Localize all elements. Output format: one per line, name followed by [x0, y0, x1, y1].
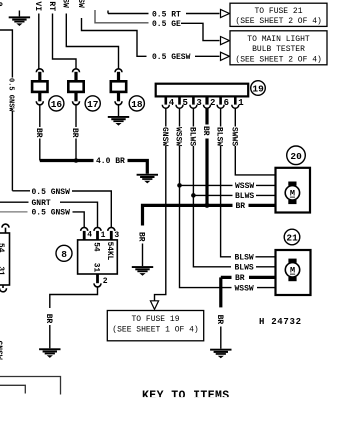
svg-text:20: 20 [290, 151, 302, 162]
svg-text:BR: BR [70, 128, 79, 138]
wire 0.5 RT feed [108, 11, 149, 14]
wire BR to motor 20 [207, 204, 276, 207]
wire SWWS pin 1 [235, 108, 275, 175]
svg-text:0.5 GESW: 0.5 GESW [152, 53, 191, 62]
label 0.5 GNSW row3 [0, 211, 28, 213]
label 0.5 GNSW row1 [12, 190, 30, 192]
svg-text:TO FUSE 21: TO FUSE 21 [255, 7, 303, 16]
svg-text:WSSW: WSSW [235, 182, 254, 191]
cut pin arc top [2, 224, 9, 233]
wire BLWS to motor 20 [193, 194, 275, 196]
arrow into fuse 21 box [221, 9, 230, 17]
svg-text:18: 18 [131, 99, 143, 110]
svg-text:3: 3 [114, 231, 119, 240]
svg-text:1: 1 [238, 98, 244, 108]
box TO FUSE 21 [230, 3, 327, 26]
arrow into bulb tester box (lower) [221, 52, 230, 60]
svg-text:BR: BR [201, 126, 210, 136]
wire to ground [142, 244, 144, 267]
svg-text:GNSW: GNSW [160, 127, 169, 146]
svg-text:TO FUSE 19: TO FUSE 19 [132, 315, 180, 324]
circle 20 [287, 146, 306, 165]
connector box 19 [156, 84, 249, 97]
svg-text:BR: BR [215, 315, 224, 325]
svg-text:H 24732: H 24732 [259, 317, 302, 327]
svg-text:0.5 GNSW: 0.5 GNSW [32, 188, 71, 197]
svg-text:(SEE SHEET 1 OF 4): (SEE SHEET 1 OF 4) [112, 326, 198, 335]
svg-text:BULB TESTER: BULB TESTER [252, 45, 305, 54]
svg-text:21: 21 [286, 233, 298, 244]
svg-text:8: 8 [61, 249, 67, 260]
svg-text:BR: BR [236, 202, 246, 211]
ground mid-left [132, 266, 153, 276]
wire 0.5 GE to arrow [181, 23, 220, 40]
wire RT jog to lamp 17 [53, 14, 77, 69]
wire WSSW to motor 20 [180, 184, 276, 186]
circle 8 [56, 245, 72, 261]
svg-text:17: 17 [87, 99, 99, 110]
svg-text:54: 54 [0, 243, 4, 253]
svg-text:(SEE SHEET 2 OF 4): (SEE SHEET 2 OF 4) [235, 55, 321, 64]
pin 1 of relay 8 [94, 227, 101, 240]
wire BLWS pin 3 [193, 108, 231, 266]
svg-text:4: 4 [87, 231, 92, 240]
svg-text:6: 6 [224, 98, 229, 108]
box TO FUSE 19 [107, 311, 203, 341]
svg-text:WSSW: WSSW [174, 127, 183, 146]
wire BR pin 2 thick [205, 108, 208, 205]
motor M symbol 20 [288, 182, 296, 186]
svg-text:1: 1 [101, 231, 106, 240]
wire row1 to pin 3 [72, 191, 111, 227]
box TO MAIN LIGHT BULB TESTER [230, 31, 327, 65]
wire row2 to pin 1 [60, 202, 98, 227]
wire 0.5 GE feed [95, 10, 149, 23]
frame line inner [0, 385, 25, 393]
svg-text:(SEE SHEET 2 OF 4): (SEE SHEET 2 OF 4) [235, 17, 321, 26]
svg-text:TO MAIN LIGHT: TO MAIN LIGHT [247, 35, 310, 44]
wire BLSW pin 6 [221, 108, 231, 256]
frame line outer [0, 377, 61, 395]
svg-text:SWWS: SWWS [229, 127, 238, 146]
wire to ground [49, 325, 51, 348]
svg-text:0.: 0. [0, 2, 3, 12]
svg-text:VI: VI [33, 1, 42, 11]
svg-text:54KL: 54KL [105, 242, 113, 261]
motor 20 box [276, 168, 311, 213]
svg-text:BLWS: BLWS [188, 127, 197, 146]
junction BLWS [191, 193, 196, 198]
pin 4 of relay 8 [81, 227, 88, 240]
svg-text:RT: RT [47, 1, 56, 11]
lamp 17 [68, 69, 83, 105]
wire VI vertical to lamp 16 [38, 14, 40, 69]
relay box 8 [78, 240, 118, 274]
wire row3 to pin 4 [73, 212, 85, 228]
svg-text:2: 2 [103, 277, 108, 286]
wire 0.5 RT to arrow [186, 13, 220, 15]
svg-text:4.0 BR: 4.0 BR [96, 157, 125, 166]
wire BR under lamp 16 [39, 105, 41, 161]
pin 5 of connector 19 [176, 96, 183, 108]
svg-text:BLWS: BLWS [235, 192, 254, 201]
wire WSSW pin 5 [180, 108, 232, 287]
ground top-left [18, 11, 20, 17]
svg-text:GNSW: GNSW [0, 341, 3, 360]
pin 6 of connector 19 [217, 96, 224, 108]
pin 3 of connector 19 [190, 96, 197, 108]
svg-text:SW: SW [61, 0, 70, 8]
circle 17 [85, 96, 100, 111]
wire 4.0 BR thick [40, 161, 148, 174]
arrow to fuse 19 [150, 301, 158, 310]
pin 2 of connector 19 [204, 96, 211, 108]
svg-text:0.5 GE: 0.5 GE [152, 20, 181, 29]
motor M symbol 21 [288, 259, 296, 263]
junction [74, 158, 79, 163]
lamp 18 [111, 69, 126, 105]
label GNRT row2 [0, 201, 29, 203]
wire BLSW to motor 21 [256, 256, 276, 258]
svg-text:19: 19 [252, 83, 264, 94]
lamp 16 [32, 69, 47, 105]
ground mid [137, 174, 158, 184]
wire 0.5 GESW to arrow [195, 55, 220, 57]
ground under relay 8 [39, 348, 60, 358]
circle 18 [129, 96, 144, 111]
pin 1 of connector 19 [232, 96, 239, 108]
svg-text:0.5 RT: 0.5 RT [152, 10, 181, 19]
svg-text:SW: SW [76, 0, 85, 8]
svg-text:BR: BR [235, 274, 245, 283]
svg-text:BLSW: BLSW [235, 254, 254, 263]
pin 3 of relay 8 [108, 227, 115, 240]
circle 19 [251, 81, 266, 96]
svg-text:BR: BR [44, 314, 53, 324]
svg-text:BR: BR [137, 232, 146, 242]
svg-text:0.5 GNSW: 0.5 GNSW [32, 209, 71, 218]
cut pin arc bottom [0, 285, 7, 292]
pin 4 of connector 19 [162, 96, 169, 108]
junction WSSW [177, 183, 182, 188]
svg-text:BLSW: BLSW [215, 127, 224, 146]
wire SW2 to 0.5 GESW row [82, 18, 147, 56]
svg-text:BLWS: BLWS [235, 264, 254, 273]
svg-text:M: M [290, 189, 295, 199]
svg-text:31: 31 [92, 263, 100, 273]
cut relay box at left edge [0, 233, 10, 285]
svg-text:5: 5 [183, 98, 188, 108]
svg-text:31: 31 [0, 266, 4, 276]
ground bottom right [210, 349, 231, 359]
circle 21 [284, 229, 300, 245]
wire BR under lamp 17 [75, 105, 77, 161]
wire BR motor 21 [221, 276, 276, 279]
wire GNSW pin 4 [155, 108, 166, 300]
wire BR left to ground [143, 205, 208, 225]
svg-text:2: 2 [210, 98, 215, 108]
ground under lamp 18 [118, 105, 120, 116]
svg-text:BR: BR [34, 128, 43, 138]
arrow into bulb tester box (upper) [221, 37, 230, 45]
svg-text:16: 16 [51, 99, 63, 110]
svg-text:WSSW: WSSW [235, 284, 254, 293]
svg-text:0.5 GNSW: 0.5 GNSW [7, 78, 15, 112]
left edge vertical wire 0.5 GNSW [0, 30, 12, 191]
svg-text:4: 4 [169, 98, 175, 108]
svg-text:M: M [290, 266, 295, 276]
pin 2 of relay 8 [94, 274, 101, 287]
svg-text:3: 3 [196, 98, 201, 108]
wire from pin 2 to ground [50, 287, 98, 308]
circle 16 [49, 96, 64, 111]
junction BR [205, 203, 210, 208]
svg-text:GNRT: GNRT [32, 199, 51, 208]
motor 21 box [276, 250, 311, 295]
svg-text:54: 54 [92, 242, 100, 252]
wire SW1 jog to lamp 18 [66, 14, 118, 69]
